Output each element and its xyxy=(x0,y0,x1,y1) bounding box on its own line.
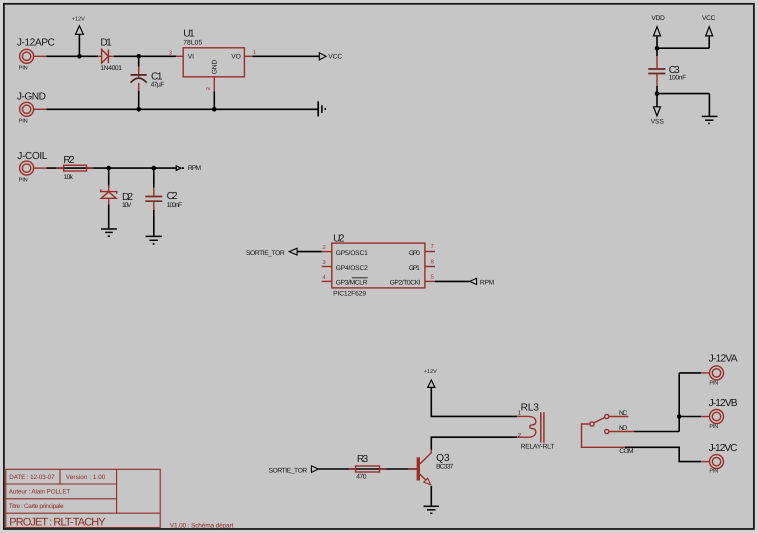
svg-text:SORTIE_TOR: SORTIE_TOR xyxy=(246,250,285,257)
svg-text:8: 8 xyxy=(431,258,434,265)
svg-text:GP4/OSC2: GP4/OSC2 xyxy=(336,265,368,272)
svg-text:1N4001: 1N4001 xyxy=(100,65,122,72)
svg-text:R3: R3 xyxy=(357,454,369,465)
svg-text:PIN: PIN xyxy=(19,177,28,183)
svg-text:U1: U1 xyxy=(183,28,195,39)
svg-text:J-12VA: J-12VA xyxy=(709,354,738,365)
svg-text:VDD: VDD xyxy=(651,15,665,22)
svg-text:GP5/OSC1: GP5/OSC1 xyxy=(336,250,368,257)
svg-text:1: 1 xyxy=(518,411,521,417)
svg-text:J-12VC: J-12VC xyxy=(709,443,738,454)
svg-text:470: 470 xyxy=(356,473,367,480)
svg-text:7: 7 xyxy=(431,244,434,250)
svg-text:VI: VI xyxy=(188,53,194,60)
svg-text:COM: COM xyxy=(619,448,634,455)
svg-text:Titre : Carte principale: Titre : Carte principale xyxy=(9,503,64,510)
svg-text:NC: NC xyxy=(619,410,627,417)
svg-text:10V: 10V xyxy=(122,202,132,209)
svg-text:2: 2 xyxy=(518,432,521,439)
svg-text:PIN: PIN xyxy=(709,424,718,430)
svg-text:J-12VB: J-12VB xyxy=(709,398,738,409)
svg-text:PIN: PIN xyxy=(709,469,718,475)
svg-text:GP2/T0CKI: GP2/T0CKI xyxy=(390,280,421,287)
svg-text:VO: VO xyxy=(231,53,241,60)
svg-text:+12V: +12V xyxy=(72,17,85,23)
svg-text:R2: R2 xyxy=(63,155,75,166)
svg-text:DATE : 12-03-07: DATE : 12-03-07 xyxy=(9,474,55,481)
svg-text:3: 3 xyxy=(169,49,172,56)
svg-text:D1: D1 xyxy=(100,38,112,49)
svg-text:3: 3 xyxy=(322,259,325,266)
svg-text:2: 2 xyxy=(322,244,325,251)
svg-text:C2: C2 xyxy=(167,191,178,202)
svg-text:47µF: 47µF xyxy=(151,82,165,89)
svg-text:Auteur : Alain POLLET: Auteur : Alain POLLET xyxy=(9,488,71,495)
svg-text:J-COIL: J-COIL xyxy=(17,151,47,162)
svg-text:PROJET : RLT-TACHY: PROJET : RLT-TACHY xyxy=(9,517,106,529)
svg-text:PIN: PIN xyxy=(709,380,718,386)
svg-text:GND: GND xyxy=(212,60,219,75)
svg-text:2: 2 xyxy=(205,87,212,90)
svg-text:BC337: BC337 xyxy=(436,464,454,471)
svg-text:100nF: 100nF xyxy=(167,202,183,209)
svg-text:100nF: 100nF xyxy=(669,75,687,82)
svg-text:U2: U2 xyxy=(333,234,345,245)
svg-text:PIN: PIN xyxy=(19,119,28,125)
svg-text:RPM: RPM xyxy=(480,279,495,286)
svg-text:GP1: GP1 xyxy=(409,265,420,272)
svg-text:PIN: PIN xyxy=(19,66,28,72)
svg-text:VCC: VCC xyxy=(702,15,716,22)
svg-text:PIC12F629: PIC12F629 xyxy=(333,290,366,297)
svg-text:RELAY-RLT: RELAY-RLT xyxy=(521,443,555,450)
svg-text:78L05: 78L05 xyxy=(183,39,202,46)
svg-text:Q3: Q3 xyxy=(436,453,450,464)
svg-text:10k: 10k xyxy=(64,174,74,181)
svg-text:NO: NO xyxy=(619,425,627,432)
svg-text:SORTIE_TOR: SORTIE_TOR xyxy=(269,467,308,474)
svg-text:VCC: VCC xyxy=(328,53,342,60)
svg-text:VSS: VSS xyxy=(651,119,665,126)
svg-text:GP3/MCLR: GP3/MCLR xyxy=(336,280,368,287)
svg-text:5: 5 xyxy=(431,274,434,280)
svg-text:RL3: RL3 xyxy=(521,402,540,413)
svg-text:J-GND: J-GND xyxy=(17,92,46,103)
svg-text:RPM: RPM xyxy=(188,165,202,172)
svg-text:V1.00 : Schéma départ: V1.00 : Schéma départ xyxy=(170,522,234,529)
svg-text:Version : 1.00: Version : 1.00 xyxy=(66,474,106,481)
svg-text:1: 1 xyxy=(253,50,256,56)
svg-text:GP0: GP0 xyxy=(409,250,420,257)
svg-text:J-12APC: J-12APC xyxy=(17,38,55,49)
svg-text:+12V: +12V xyxy=(424,369,437,375)
